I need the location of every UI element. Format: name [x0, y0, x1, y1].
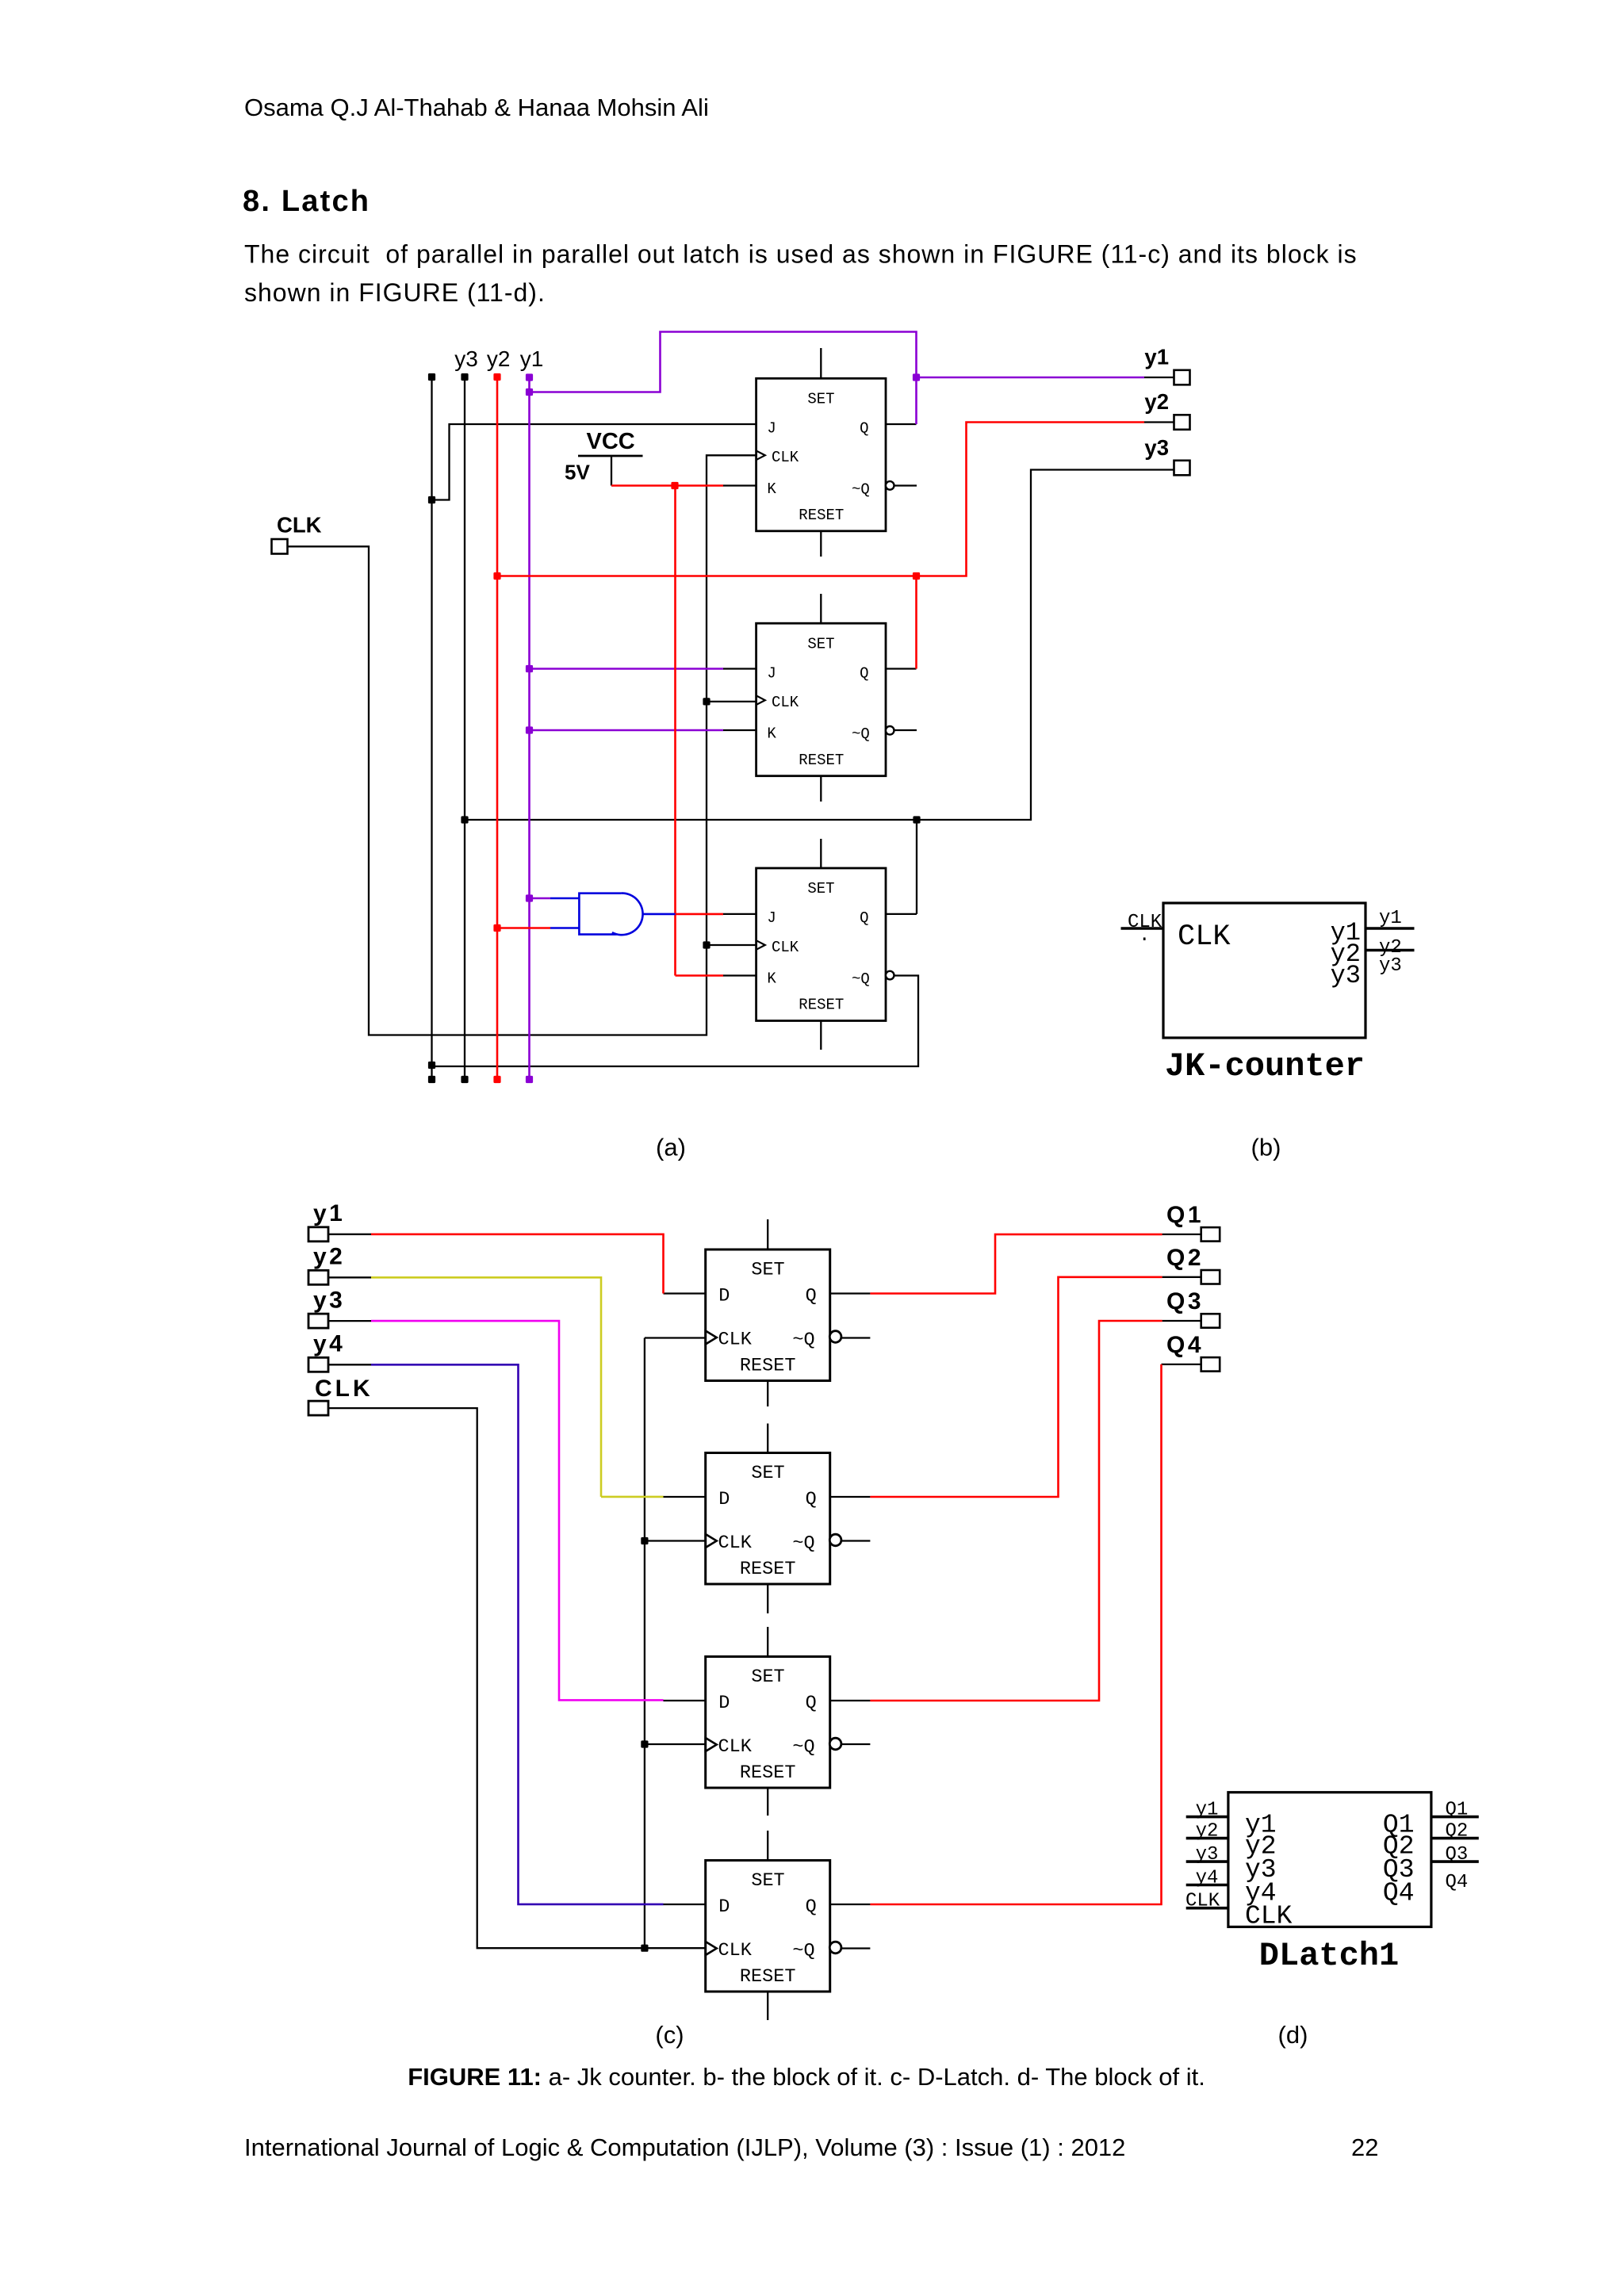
svg-text:Q1: Q1 [1166, 1202, 1204, 1228]
svg-text:International Journal of Logic: International Journal of Logic & Computa… [244, 2133, 1125, 2161]
svg-text:Q4: Q4 [1166, 1332, 1204, 1358]
svg-text:(d): (d) [1278, 2021, 1308, 2049]
svg-text:y2: y2 [313, 1244, 345, 1270]
svg-text:shown in FIGURE (11-d).: shown in FIGURE (11-d). [244, 278, 546, 307]
svg-text:Q1: Q1 [1446, 1800, 1469, 1821]
svg-text:8. Latch: 8. Latch [243, 185, 370, 218]
svg-text:y2: y2 [1196, 1821, 1219, 1843]
svg-text:y1: y1 [1144, 345, 1169, 369]
svg-text:(a): (a) [656, 1134, 686, 1161]
svg-text:y3: y3 [1331, 961, 1361, 990]
svg-text:y2: y2 [1144, 389, 1169, 414]
svg-text:y3: y3 [1144, 435, 1169, 460]
svg-text:JK-counter: JK-counter [1165, 1047, 1365, 1085]
svg-text:Q2: Q2 [1166, 1245, 1204, 1271]
svg-text:Q4: Q4 [1383, 1879, 1415, 1908]
svg-text:y3: y3 [454, 346, 478, 371]
svg-text:5V: 5V [565, 461, 590, 484]
svg-text:CLK: CLK [1245, 1902, 1293, 1931]
svg-text:y4: y4 [313, 1331, 345, 1357]
svg-text:CLK: CLK [1178, 920, 1231, 954]
svg-text:y1: y1 [1196, 1800, 1219, 1821]
svg-text:Q4: Q4 [1446, 1872, 1469, 1893]
svg-text:CLK: CLK [315, 1376, 373, 1402]
svg-text:y3: y3 [1196, 1844, 1219, 1865]
svg-text:Q2: Q2 [1446, 1821, 1469, 1843]
svg-text:Osama Q.J Al-Thahab & Hanaa Mo: Osama Q.J Al-Thahab & Hanaa Mohsin Ali [244, 94, 709, 121]
svg-text:FIGURE 11: a- Jk counter. b- t: FIGURE 11: a- Jk counter. b- the block o… [408, 2063, 1205, 2091]
svg-text:VCC: VCC [587, 429, 635, 454]
svg-text:y1: y1 [520, 346, 544, 371]
svg-text:(c): (c) [655, 2021, 684, 2049]
svg-text:y4: y4 [1196, 1868, 1219, 1889]
svg-text:y3: y3 [313, 1287, 345, 1313]
svg-text:CLK: CLK [277, 513, 322, 538]
svg-text:.: . [1139, 925, 1150, 947]
svg-text:22: 22 [1351, 2133, 1378, 2161]
svg-text:y1: y1 [313, 1200, 345, 1226]
svg-text:Q3: Q3 [1446, 1844, 1469, 1865]
svg-text:y2: y2 [487, 346, 511, 371]
svg-text:The circuit of parallel in pa: The circuit of parallel in parallel out … [244, 240, 1358, 269]
svg-text:DLatch1: DLatch1 [1259, 1937, 1399, 1975]
svg-text:y3: y3 [1379, 955, 1402, 977]
svg-text:CLK: CLK [1185, 1891, 1220, 1912]
svg-text:(b): (b) [1251, 1134, 1281, 1161]
svg-text:y1: y1 [1379, 908, 1402, 929]
svg-text:Q3: Q3 [1166, 1288, 1204, 1314]
